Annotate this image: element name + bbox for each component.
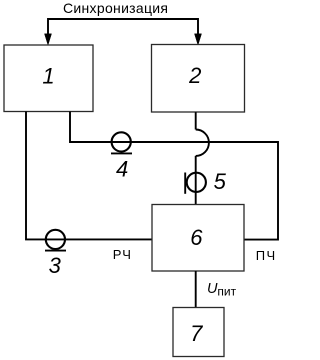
label ПЧ <box>256 248 277 263</box>
label Синхронизация <box>63 0 168 16</box>
svg-text:ПЧ: ПЧ <box>256 248 277 263</box>
svg-text:3: 3 <box>49 253 62 278</box>
connector 4 (coax transition on IF wire) <box>111 132 132 181</box>
svg-text:4: 4 <box>116 156 128 181</box>
arrow into block 2 <box>195 34 202 45</box>
label Uпит <box>207 281 237 299</box>
svg-text:РЧ: РЧ <box>113 247 132 262</box>
connector 3 (coax transition on RF wire) <box>45 230 66 278</box>
wire sync bus <box>48 19 198 37</box>
label РЧ <box>113 247 132 262</box>
arrow into block 1 <box>45 34 52 45</box>
wire block2 down to hop <box>195 112 197 129</box>
svg-text:6: 6 <box>190 225 203 250</box>
wire block6 to block7 <box>195 271 197 308</box>
svg-text:5: 5 <box>214 169 227 194</box>
block 6 <box>152 205 244 272</box>
svg-text:7: 7 <box>190 321 203 346</box>
connector 5 (coax transition on vertical wire) <box>185 169 226 194</box>
svg-text:Синхронизация: Синхронизация <box>63 0 168 16</box>
block 1 <box>4 45 93 112</box>
wire block1 to node 3 (RF path down-left) <box>26 112 152 240</box>
svg-text:2: 2 <box>188 63 201 88</box>
svg-text:1: 1 <box>42 63 54 88</box>
svg-text:пит: пит <box>217 285 236 299</box>
block 7 <box>173 308 224 357</box>
svg-text:U: U <box>207 281 218 297</box>
wire hop to block 6 top <box>195 156 197 205</box>
block 2 <box>152 45 245 113</box>
wire block1 to node 4 and right rail to block 6 (IF path) <box>70 112 278 240</box>
wire hop over IF wire <box>196 130 209 156</box>
